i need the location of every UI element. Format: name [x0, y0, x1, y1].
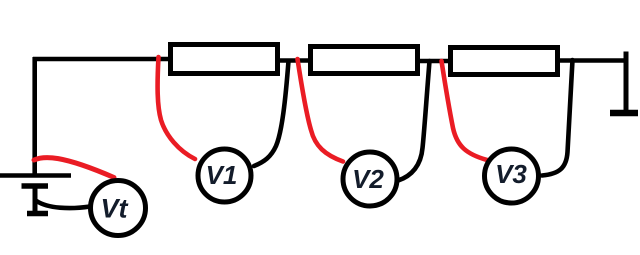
- wire R1 to R2: [278, 58, 310, 63]
- wire red R1 left to V1: [158, 57, 195, 159]
- voltmeter V3: [485, 149, 539, 203]
- wire left vertical: [32, 57, 37, 176]
- resistor R2: [311, 47, 418, 74]
- svg-text:V2: V2: [352, 164, 384, 194]
- wire top-left horizontal: [33, 57, 168, 62]
- battery terminal bar: [27, 211, 48, 217]
- wire black R1-R2 node to V1: [254, 61, 289, 166]
- svg-text:V1: V1: [206, 160, 238, 190]
- voltmeter Vt: [91, 181, 146, 236]
- wire black battery to Vt: [37, 201, 91, 208]
- battery negative plate: [22, 183, 49, 189]
- wire red battery to Vt: [34, 158, 114, 178]
- wire right vertical to ground: [624, 54, 629, 110]
- voltmeter V1: [198, 149, 251, 202]
- wire red R1-R2 node to V2: [298, 59, 344, 162]
- resistor R1: [171, 45, 278, 74]
- wire black R3 right to V3: [542, 60, 573, 176]
- wire R2 to R3: [418, 59, 450, 64]
- wire red R2-R3 node to V3: [442, 61, 488, 160]
- svg-text:V3: V3: [495, 159, 527, 189]
- ground: [610, 110, 638, 117]
- voltmeter V2: [343, 152, 397, 206]
- svg-text:Vt: Vt: [101, 194, 129, 224]
- battery positive plate: [0, 173, 71, 178]
- wire battery negative lead: [33, 186, 38, 211]
- wire black R2-R3 node to V2: [398, 61, 430, 181]
- wire R3 to right corner: [558, 58, 626, 63]
- resistor R3: [451, 48, 558, 75]
